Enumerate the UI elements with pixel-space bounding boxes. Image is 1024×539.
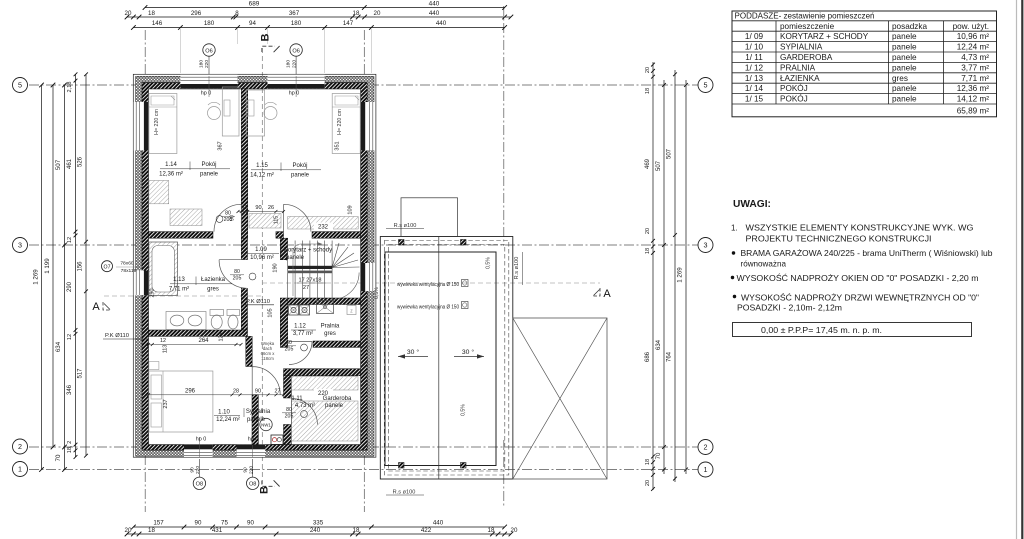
drawing frame edge xyxy=(1021,0,1023,539)
svg-text:461: 461 xyxy=(67,158,73,169)
chimney vent block NW1 xyxy=(271,435,283,444)
svg-text:18: 18 xyxy=(645,459,651,465)
wall pier at corridor door xyxy=(276,232,284,239)
svg-text:240: 240 xyxy=(310,527,321,534)
svg-text:GARDEROBA: GARDEROBA xyxy=(780,53,833,62)
bed room 1.15 xyxy=(332,94,360,154)
window marker O8 left xyxy=(198,459,200,477)
svg-text:440: 440 xyxy=(433,520,444,527)
garage roof outline xyxy=(380,237,513,480)
right dimension line 1 (20 18 469 20 18 686 18 20) xyxy=(652,62,654,490)
bathroom vanity with two basins xyxy=(166,312,206,330)
svg-text:634: 634 xyxy=(55,341,62,352)
svg-text:8: 8 xyxy=(235,10,239,17)
svg-text:P.K Ø110: P.K Ø110 xyxy=(246,299,270,305)
svg-text:P.K Ø110: P.K Ø110 xyxy=(105,333,129,339)
left dimension line 5 (526 156 517) xyxy=(85,74,87,455)
wall laundry west xyxy=(280,298,287,347)
svg-text:115: 115 xyxy=(274,216,280,224)
svg-text:422: 422 xyxy=(421,527,432,534)
svg-text:WYSOKOŚĆ NADPROŻY OKIEN OD "0": WYSOKOŚĆ NADPROŻY OKIEN OD "0" POSADZKI … xyxy=(737,274,979,283)
svg-text:237: 237 xyxy=(163,399,169,408)
top dimension row 1 (689 / 440) xyxy=(145,7,505,9)
svg-text:12,24 m²: 12,24 m² xyxy=(216,417,240,423)
window O6 room 1.14 top xyxy=(180,75,237,89)
chair room 1.15 xyxy=(264,107,277,120)
exterior wall insulation band (pebble) xyxy=(136,76,374,456)
svg-text:panele: panele xyxy=(892,84,917,93)
svg-text:panele: panele xyxy=(286,255,305,261)
window centreline bedroom left xyxy=(198,437,200,457)
svg-text:18: 18 xyxy=(645,88,651,94)
svg-text:1.12: 1.12 xyxy=(294,324,306,330)
eaves storage hatch room 1.14 west xyxy=(149,181,169,204)
window staircase right wall xyxy=(361,263,376,291)
window O6 room 1.15 top xyxy=(268,75,325,89)
svg-text:panele: panele xyxy=(892,53,917,62)
svg-text:70: 70 xyxy=(55,454,62,461)
svg-text:180: 180 xyxy=(199,60,205,68)
svg-text:R.s ø100: R.s ø100 xyxy=(514,257,520,280)
svg-text:296: 296 xyxy=(185,388,196,394)
eaves storage hatch room 1.15 south-west xyxy=(249,214,281,229)
wall corridor north - right segment xyxy=(312,232,361,239)
svg-text:1/ 12: 1/ 12 xyxy=(745,63,764,72)
svg-text:panele: panele xyxy=(892,63,917,72)
garage corner post top-right xyxy=(461,240,467,246)
svg-text:351: 351 xyxy=(335,141,341,150)
svg-text:panele: panele xyxy=(892,32,917,41)
svg-text:PODDASZE- zestawienie pomieszc: PODDASZE- zestawienie pomieszczeń xyxy=(735,11,875,21)
svg-text:180: 180 xyxy=(286,60,292,68)
bidet xyxy=(227,310,240,316)
svg-text:Korytarz + schody: Korytarz + schody xyxy=(284,248,332,254)
garage chimney block top xyxy=(401,198,458,237)
bottom dimension row A (157 90 75 90 335 440) xyxy=(133,526,504,528)
svg-text:205: 205 xyxy=(285,347,294,353)
svg-text:94: 94 xyxy=(249,20,256,27)
garage roof dashed inset 2 xyxy=(388,245,505,472)
svg-text:205: 205 xyxy=(233,276,242,282)
svg-text:1/ 14: 1/ 14 xyxy=(745,84,764,93)
svg-text:30 °: 30 ° xyxy=(462,348,474,356)
axis line vertical right wall xyxy=(363,30,365,512)
svg-text:O7: O7 xyxy=(104,264,111,270)
svg-text:1/ 09: 1/ 09 xyxy=(745,32,764,41)
wall laundry north xyxy=(288,298,361,305)
svg-text:1 199: 1 199 xyxy=(44,258,51,274)
z-symbol box laundry xyxy=(347,306,356,315)
svg-text:B: B xyxy=(259,486,271,494)
svg-text:Sypialnia: Sypialnia xyxy=(246,409,271,415)
svg-text:1/ 13: 1/ 13 xyxy=(745,74,764,83)
svg-text:12: 12 xyxy=(160,338,166,344)
bedroom dim line 296 28 90 27 xyxy=(149,394,284,396)
svg-text:18: 18 xyxy=(353,527,360,534)
window centreline 1.15 xyxy=(295,76,297,97)
svg-text:1.09: 1.09 xyxy=(255,247,267,253)
note 4 xyxy=(733,295,736,298)
svg-text:0,5%: 0,5% xyxy=(461,404,467,416)
svg-text:panele: panele xyxy=(291,172,310,178)
svg-text:90: 90 xyxy=(243,467,249,473)
svg-text:panele: panele xyxy=(892,95,917,104)
window marker O8 right xyxy=(252,459,254,477)
svg-text:pow. użyt.: pow. użyt. xyxy=(953,22,989,31)
svg-text:R.s ø100: R.s ø100 xyxy=(393,490,416,496)
svg-text:1/ 11: 1/ 11 xyxy=(745,53,763,62)
left dimension line 2 (1 199) xyxy=(52,85,54,447)
svg-text:156: 156 xyxy=(78,261,84,272)
svg-text:2: 2 xyxy=(18,442,22,451)
svg-text:75: 75 xyxy=(221,520,228,527)
svg-text:0,5%: 0,5% xyxy=(374,287,380,299)
svg-text:180: 180 xyxy=(291,20,302,27)
wall wardrobe west upper xyxy=(284,376,292,398)
svg-text:H= 220 cm: H= 220 cm xyxy=(154,109,160,135)
svg-text:Garderoba: Garderoba xyxy=(323,396,352,402)
svg-text:90: 90 xyxy=(255,205,261,211)
svg-text:20: 20 xyxy=(125,10,132,17)
axis bubble 2 right xyxy=(698,440,713,455)
svg-text:205: 205 xyxy=(224,217,233,223)
svg-text:wywiewka wentylacyjna Ø 150: wywiewka wentylacyjna Ø 150 xyxy=(397,305,459,311)
svg-text:526: 526 xyxy=(78,156,84,167)
wall bedroom east upper xyxy=(246,336,252,366)
svg-text:1: 1 xyxy=(704,465,708,474)
svg-text:346: 346 xyxy=(67,384,73,395)
svg-text:190: 190 xyxy=(273,263,279,272)
garage ridge line xyxy=(438,237,440,480)
svg-text:gres: gres xyxy=(892,74,908,83)
window room 1.15 right wall xyxy=(361,102,376,151)
svg-text:PRALNIA: PRALNIA xyxy=(780,63,816,72)
svg-text:BRAMA GARAŻOWA 240/225 - brama: BRAMA GARAŻOWA 240/225 - brama UniTherm … xyxy=(741,249,994,258)
svg-text:105: 105 xyxy=(268,308,274,317)
desk room 1.15 xyxy=(246,90,264,136)
door room 1.14 xyxy=(214,204,241,231)
dim 232 label xyxy=(314,223,333,230)
axis bubble 5 left xyxy=(13,78,28,93)
level box xyxy=(733,323,972,337)
wardrobe hatch garderoba bottom xyxy=(292,401,359,441)
svg-text:5: 5 xyxy=(704,81,708,90)
exterior wall masonry band (hatched) xyxy=(142,83,367,450)
right dimension line 3 (507 764) xyxy=(674,70,676,482)
svg-text:1 269: 1 269 xyxy=(677,267,684,283)
staircase curve xyxy=(332,273,359,300)
svg-text:18: 18 xyxy=(148,10,155,17)
svg-text:20: 20 xyxy=(511,527,518,534)
svg-text:WSZYSTKIE ELEMENTY KONSTRUKCYJ: WSZYSTKIE ELEMENTY KONSTRUKCYJNE WYK. WG xyxy=(746,223,974,233)
svg-text:90: 90 xyxy=(255,388,261,394)
svg-text:20: 20 xyxy=(645,228,651,234)
vent symbol NW1 xyxy=(260,418,272,430)
axis line 1 horizontal xyxy=(29,469,698,471)
roof plane with X bracing xyxy=(513,318,607,479)
window marker O6 left xyxy=(208,56,210,78)
garage inner wall rectangle xyxy=(385,252,496,466)
svg-text:3: 3 xyxy=(18,241,22,250)
bed room 1.14 xyxy=(149,94,177,154)
svg-text:5: 5 xyxy=(18,81,22,90)
svg-text:1/ 10: 1/ 10 xyxy=(745,43,764,52)
svg-text:ŁAZIENKA: ŁAZIENKA xyxy=(780,74,820,83)
svg-text:gres: gres xyxy=(324,331,336,337)
bathtub xyxy=(149,242,178,296)
svg-text:157: 157 xyxy=(153,520,164,527)
svg-text:UWAGI:: UWAGI: xyxy=(733,199,771,210)
svg-text:POKÓJ: POKÓJ xyxy=(780,94,808,104)
svg-text:78x118: 78x118 xyxy=(121,268,137,274)
note 2 xyxy=(732,251,735,254)
desk room 1.14 xyxy=(222,87,239,136)
drawing frame inner line xyxy=(1016,0,1018,539)
svg-text:PROJEKTU TECHNICZNEGO KONSTRUK: PROJEKTU TECHNICZNEGO KONSTRUKCJI xyxy=(746,234,932,244)
svg-text:507: 507 xyxy=(656,160,662,171)
window marker O6 right xyxy=(295,56,297,78)
svg-text:O6: O6 xyxy=(292,48,299,54)
garage corner post top-left xyxy=(399,240,405,246)
svg-text:80: 80 xyxy=(286,340,292,346)
axis bubble 1 left xyxy=(13,462,28,477)
svg-text:686: 686 xyxy=(645,351,651,362)
svg-text:27: 27 xyxy=(275,388,281,394)
svg-text:90: 90 xyxy=(189,467,195,473)
section line B-B vertical xyxy=(261,48,263,484)
svg-text:A: A xyxy=(603,288,611,300)
axis line vertical garage lower xyxy=(503,440,505,508)
svg-text:1.13: 1.13 xyxy=(173,277,185,283)
svg-text:12: 12 xyxy=(67,334,73,340)
svg-text:posadzka: posadzka xyxy=(892,22,927,31)
svg-text:507: 507 xyxy=(55,159,62,170)
svg-text:Pokój: Pokój xyxy=(292,163,307,169)
svg-text:POSADZKI - 2,10m- 2,12m: POSADZKI - 2,10m- 2,12m xyxy=(737,304,842,313)
svg-text:O8: O8 xyxy=(196,482,203,488)
axis line vertical left wall xyxy=(144,30,146,512)
svg-text:764: 764 xyxy=(667,351,673,362)
axis line 2 horizontal xyxy=(29,446,698,448)
door wardrobe 1.11 xyxy=(291,399,317,425)
svg-text:0,00 ± P.P.P= 17,45 m. n. p. m: 0,00 ± P.P.P= 17,45 m. n. p. m. xyxy=(761,326,882,335)
svg-text:1.11: 1.11 xyxy=(291,396,303,402)
svg-text:10,96 m²: 10,96 m² xyxy=(250,255,274,261)
svg-text:335: 335 xyxy=(313,520,324,527)
garage roof dashed inset 1 xyxy=(384,241,509,476)
section line A-A left part xyxy=(104,295,262,297)
svg-text:26: 26 xyxy=(268,205,274,211)
top dimension row 3 (146 180 94 180 147 440) xyxy=(133,27,504,29)
door room 1.15 xyxy=(284,204,311,231)
left dimension line 4 (2 18 461 12 290 12 346 18 2) xyxy=(75,74,77,457)
left dimension line 3 (507 634 70) xyxy=(64,85,66,470)
svg-text:1/ 15: 1/ 15 xyxy=(745,95,764,104)
svg-text:20: 20 xyxy=(645,480,651,486)
bathroom dim line 12 264 123 xyxy=(149,344,242,346)
wall between rooms 1.14 and 1.15 xyxy=(241,89,247,239)
right dimension line 4 (1 269) xyxy=(685,80,687,474)
door laundry xyxy=(289,342,312,365)
window O8 bedroom bottom right xyxy=(237,445,266,457)
svg-text:WYSOKOŚĆ NADPROŻY DRZWI WEWNĘT: WYSOKOŚĆ NADPROŻY DRZWI WEWNĘTRZNYCH OD … xyxy=(741,294,979,303)
staircase handrail xyxy=(288,266,332,269)
axis bubble 3 right xyxy=(698,238,713,253)
exterior wall outer contour line xyxy=(133,74,376,457)
svg-text:146: 146 xyxy=(152,20,163,27)
svg-text:3,77 m²: 3,77 m² xyxy=(961,63,989,72)
svg-text:220: 220 xyxy=(204,60,210,68)
svg-text:12: 12 xyxy=(242,205,248,211)
svg-text:18: 18 xyxy=(353,10,360,17)
svg-text:panele: panele xyxy=(325,403,344,409)
door bathroom xyxy=(219,260,247,289)
svg-text:70: 70 xyxy=(656,452,662,459)
staircase winder treads xyxy=(332,243,339,268)
svg-text:KORYTARZ + SCHODY: KORYTARZ + SCHODY xyxy=(780,32,869,41)
garage corner post bottom-left xyxy=(399,463,405,469)
svg-text:180: 180 xyxy=(204,20,215,27)
wall corridor east upper xyxy=(280,238,287,260)
svg-text:1.15: 1.15 xyxy=(256,163,268,169)
svg-text:NW1: NW1 xyxy=(261,423,271,428)
left dimension line 1 (1 269) xyxy=(41,85,43,470)
svg-text:12: 12 xyxy=(67,237,73,243)
svg-text:7,71 m²: 7,71 m² xyxy=(169,286,189,292)
svg-text:R.s ø100: R.s ø100 xyxy=(394,223,417,229)
svg-text:507: 507 xyxy=(667,148,673,159)
svg-text:634: 634 xyxy=(656,339,662,350)
staircase treads xyxy=(287,241,289,300)
svg-text:440: 440 xyxy=(436,20,447,27)
svg-text:290: 290 xyxy=(150,289,156,298)
svg-text:80: 80 xyxy=(286,407,292,413)
svg-text:205: 205 xyxy=(285,414,294,420)
svg-text:90: 90 xyxy=(195,520,202,527)
bottom dimension row B (20 18 431 240 18 422 18 20) xyxy=(127,533,511,535)
svg-text:80: 80 xyxy=(234,269,240,275)
wall laundry south xyxy=(313,341,361,347)
svg-text:2: 2 xyxy=(704,443,708,452)
svg-text:12,36 m²: 12,36 m² xyxy=(957,84,990,93)
wall corridor west lower xyxy=(241,288,247,330)
svg-text:220: 220 xyxy=(248,466,254,474)
svg-text:wywiewka wentylacyjna Ø 150: wywiewka wentylacyjna Ø 150 xyxy=(397,282,459,288)
svg-text:367: 367 xyxy=(289,10,300,17)
washing machines in laundry xyxy=(289,305,299,315)
svg-text:264: 264 xyxy=(198,338,209,344)
svg-text:H= 220 cm: H= 220 cm xyxy=(337,109,343,135)
door bedroom 1.10 xyxy=(252,367,280,395)
nightstand xyxy=(149,362,159,370)
svg-text:18: 18 xyxy=(645,248,651,254)
svg-text:14,12 m²: 14,12 m² xyxy=(250,172,274,178)
svg-text:2,18: 2,18 xyxy=(67,82,73,93)
laundry sink xyxy=(317,301,334,314)
svg-text:18: 18 xyxy=(488,527,495,534)
chair room 1.14 xyxy=(208,107,221,120)
svg-text:232: 232 xyxy=(318,225,329,231)
svg-text:367: 367 xyxy=(218,141,224,150)
svg-text:27: 27 xyxy=(303,285,309,291)
svg-text:30 °: 30 ° xyxy=(407,348,419,356)
axis line vertical garage upper xyxy=(503,6,505,246)
corridor dim 12 90 26 xyxy=(238,211,284,213)
svg-text:290: 290 xyxy=(67,281,73,292)
svg-text:80: 80 xyxy=(225,211,231,217)
staircase walk line with arrow xyxy=(293,244,317,296)
window O7 bathroom left wall xyxy=(134,271,149,296)
svg-text:1.: 1. xyxy=(731,224,738,233)
svg-text:109: 109 xyxy=(348,205,354,214)
svg-text:12,36 m²: 12,36 m² xyxy=(159,171,183,177)
room schedule table xyxy=(732,11,997,117)
svg-text:220: 220 xyxy=(195,466,201,474)
svg-text:123: 123 xyxy=(219,333,225,342)
svg-text:12,24 m²: 12,24 m² xyxy=(957,43,990,52)
svg-text:0,5%: 0,5% xyxy=(486,257,492,269)
svg-text:pomieszczenie: pomieszczenie xyxy=(780,22,835,31)
svg-text:517: 517 xyxy=(78,368,84,379)
eaves storage hatch room 1.15 south-east xyxy=(288,217,359,230)
dim 220 garderoba xyxy=(314,389,333,396)
section line A-A right part xyxy=(262,282,600,284)
svg-text:3,77 m²: 3,77 m² xyxy=(293,331,313,337)
wall wardrobe north xyxy=(284,369,361,376)
svg-text:1.14: 1.14 xyxy=(165,162,177,168)
svg-text:20: 20 xyxy=(125,527,132,534)
svg-text:4,73 m²: 4,73 m² xyxy=(295,403,315,409)
garage corner post bottom-right xyxy=(461,463,467,469)
top dimension row 2 (20 18 296 8 367 18 20 440) xyxy=(127,16,511,18)
toilet xyxy=(210,310,224,316)
axis bubble 2 left xyxy=(13,439,28,454)
svg-text:147: 147 xyxy=(343,20,354,27)
svg-text:Pokój: Pokój xyxy=(201,162,216,168)
svg-text:O8: O8 xyxy=(249,482,256,488)
svg-text:469: 469 xyxy=(645,158,651,169)
svg-text:7,71 m²: 7,71 m² xyxy=(961,74,989,83)
svg-text:gres: gres xyxy=(207,286,219,292)
eaves storage hatch room 1.14 south xyxy=(170,209,202,226)
svg-text:440: 440 xyxy=(429,1,440,8)
svg-text:panele: panele xyxy=(200,171,219,177)
window marker O7 xyxy=(102,261,113,272)
double bed bedroom 1.10 xyxy=(149,371,213,432)
wardrobe hatch garderoba top xyxy=(292,377,359,391)
svg-text:14,12 m²: 14,12 m² xyxy=(957,95,990,104)
axis line 5 horizontal xyxy=(29,84,698,86)
svg-text:4,73 m²: 4,73 m² xyxy=(961,53,989,62)
svg-text:118cm: 118cm xyxy=(261,356,274,361)
svg-text:18: 18 xyxy=(148,527,155,534)
svg-text:220: 220 xyxy=(291,60,297,68)
wall bedroom east lower xyxy=(252,395,258,445)
svg-text:B: B xyxy=(260,33,272,41)
window centreline 1.14 xyxy=(208,76,210,97)
svg-text:1: 1 xyxy=(18,465,22,474)
svg-text:SYPIALNIA: SYPIALNIA xyxy=(780,43,823,52)
svg-text:1 269: 1 269 xyxy=(33,269,40,285)
svg-text:O6: O6 xyxy=(205,48,212,54)
svg-text:POKÓJ: POKÓJ xyxy=(780,83,808,93)
note 3 xyxy=(731,276,734,279)
svg-text:Łazienka: Łazienka xyxy=(201,277,226,283)
svg-text:431: 431 xyxy=(212,527,223,534)
axis bubble 5 right xyxy=(698,78,713,93)
svg-text:hp 0: hp 0 xyxy=(248,437,259,443)
svg-text:28: 28 xyxy=(233,388,239,394)
